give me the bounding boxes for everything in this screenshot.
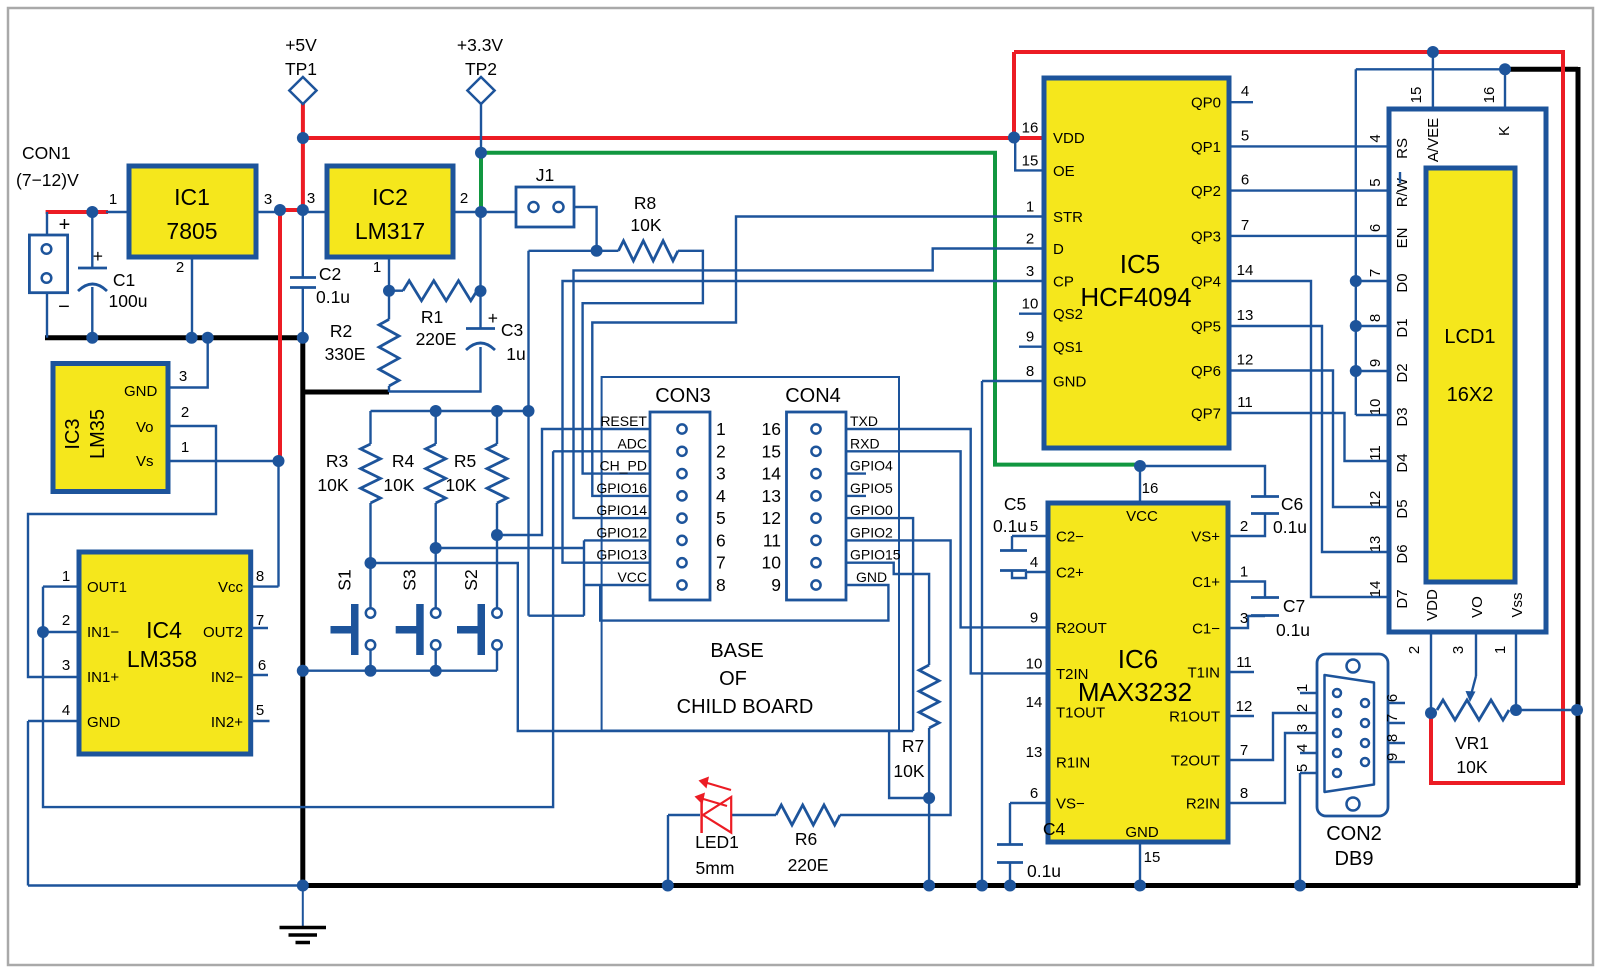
wire IC4 OUT1 stub xyxy=(43,585,79,587)
wire IC2 output to J1 xyxy=(453,211,516,213)
svg-text:1: 1 xyxy=(1294,684,1311,692)
svg-text:C2−: C2− xyxy=(1056,529,1084,546)
wire C6 bottom to VS+ xyxy=(1228,514,1265,536)
svg-text:7: 7 xyxy=(1384,714,1401,722)
label C6 xyxy=(1273,494,1307,537)
svg-text:220E: 220E xyxy=(416,329,457,349)
svg-text:LM35: LM35 xyxy=(87,409,109,459)
svg-text:2: 2 xyxy=(460,190,468,207)
wire CON1 plus xyxy=(46,212,48,235)
svg-text:QP4: QP4 xyxy=(1191,274,1221,291)
svg-text:13: 13 xyxy=(1367,536,1384,553)
IC2 LM317 xyxy=(307,166,468,276)
svg-text:3: 3 xyxy=(307,190,315,207)
svg-text:1: 1 xyxy=(1492,646,1509,654)
svg-text:S3: S3 xyxy=(400,569,420,590)
capacitor C1 (electrolytic) xyxy=(78,246,107,291)
label C2 xyxy=(316,264,350,307)
wire C2 top xyxy=(302,210,304,277)
svg-text:VS−: VS− xyxy=(1056,796,1085,813)
wire IC1 input stub xyxy=(106,211,129,213)
wire GPIO0 down xyxy=(846,518,913,731)
svg-text:R2: R2 xyxy=(330,321,352,341)
wire IC3 Vs to IC4 Vcc xyxy=(168,461,279,587)
wire R2 bottom xyxy=(388,386,390,392)
IC3 LM35 xyxy=(53,364,189,492)
svg-text:9: 9 xyxy=(1384,753,1401,761)
svg-text:GPIO2: GPIO2 xyxy=(850,524,893,540)
svg-text:5: 5 xyxy=(1367,178,1384,186)
LCD1 16X2 module xyxy=(1367,87,1546,655)
svg-text:TXD: TXD xyxy=(850,413,878,429)
svg-text:3: 3 xyxy=(716,464,726,484)
svg-text:0.1u: 0.1u xyxy=(316,287,350,307)
svg-text:R2OUT: R2OUT xyxy=(1056,620,1107,637)
wire +5V link between node dots xyxy=(280,208,303,212)
svg-text:15: 15 xyxy=(1144,849,1161,866)
wire IC2 pin1 to R2 top xyxy=(388,257,390,319)
svg-text:CON4: CON4 xyxy=(785,385,841,407)
wire IC4 IN2+ stub xyxy=(251,720,270,722)
wire C5 to C2+ pin xyxy=(1012,571,1048,578)
label R4 xyxy=(383,451,414,495)
label C5 xyxy=(993,494,1027,536)
svg-text:T1OUT: T1OUT xyxy=(1056,705,1105,722)
svg-text:LM317: LM317 xyxy=(355,218,425,244)
svg-text:R1OUT: R1OUT xyxy=(1169,709,1220,726)
wire IC5 QS2 stub xyxy=(1019,313,1043,315)
wire C7 top to C1+ xyxy=(1228,582,1265,598)
svg-text:10K: 10K xyxy=(317,475,348,495)
wire C2 bottom xyxy=(302,287,304,338)
svg-text:QP7: QP7 xyxy=(1191,406,1221,423)
svg-text:D0: D0 xyxy=(1394,273,1411,292)
svg-text:10K: 10K xyxy=(383,475,414,495)
ground bus top-left xyxy=(45,335,303,340)
resistor R2 xyxy=(379,319,399,386)
svg-text:IC1: IC1 xyxy=(174,184,210,210)
svg-text:IC5: IC5 xyxy=(1120,249,1160,279)
svg-text:IN2−: IN2− xyxy=(211,669,243,686)
svg-text:VS+: VS+ xyxy=(1191,529,1220,546)
svg-text:16: 16 xyxy=(762,419,781,439)
svg-text:ADC: ADC xyxy=(617,435,647,451)
potentiometer VR1 xyxy=(1437,676,1509,720)
wire IC6 R1OUT stub xyxy=(1228,715,1254,717)
resistor R6 xyxy=(776,805,840,825)
svg-text:C2+: C2+ xyxy=(1056,565,1084,582)
svg-text:GPIO14: GPIO14 xyxy=(596,502,647,518)
wire CON2 pin5 to ground xyxy=(1300,773,1317,886)
wire QP7 to LCD D4 xyxy=(1229,413,1389,461)
ground branch to R2/C3 xyxy=(303,390,389,395)
svg-text:IN1−: IN1− xyxy=(87,624,119,641)
label R6 xyxy=(788,829,829,875)
svg-text:14: 14 xyxy=(1367,581,1384,598)
wire IC4 IN1- stub xyxy=(43,631,79,633)
label VR1 xyxy=(1455,733,1489,777)
wire J1 pin2 down to R8 xyxy=(574,207,597,251)
svg-text:13: 13 xyxy=(1237,307,1254,324)
wire IC3 Vo to IC4 IN1+ xyxy=(28,426,216,677)
svg-text:VCC: VCC xyxy=(1126,508,1158,525)
svg-text:8: 8 xyxy=(1367,314,1384,322)
svg-text:S2: S2 xyxy=(461,569,481,590)
svg-text:7: 7 xyxy=(256,612,264,629)
svg-text:C3: C3 xyxy=(501,320,523,340)
svg-text:R/W: R/W xyxy=(1394,177,1411,207)
svg-text:5: 5 xyxy=(1030,518,1038,535)
svg-text:8: 8 xyxy=(716,575,726,595)
wire LCD VDD down xyxy=(1430,632,1432,713)
svg-text:D2: D2 xyxy=(1394,363,1411,382)
wire T2OUT to CON2 pin2 xyxy=(1228,713,1317,760)
svg-text:6: 6 xyxy=(1367,224,1384,232)
svg-text:10K: 10K xyxy=(893,761,924,781)
wire RESET to S2/R5 xyxy=(497,429,650,535)
label LED1 xyxy=(695,832,739,878)
svg-text:8: 8 xyxy=(1026,363,1034,380)
svg-text:R5: R5 xyxy=(454,451,476,471)
wire QP4 to LCD D7 xyxy=(1229,281,1389,597)
wire GPIO5 stub xyxy=(846,495,866,497)
svg-text:CH_PD: CH_PD xyxy=(600,458,647,474)
svg-text:GND: GND xyxy=(124,383,158,400)
svg-text:14: 14 xyxy=(762,464,782,484)
svg-text:15: 15 xyxy=(1022,152,1039,169)
wire R8 to CH_PD xyxy=(583,251,703,474)
svg-text:BASE: BASE xyxy=(710,640,763,662)
wire IC1 out to IC2 in xyxy=(255,211,280,213)
wire LCD D0-D3 common xyxy=(1356,69,1389,415)
svg-text:220E: 220E xyxy=(788,855,829,875)
svg-text:16X2: 16X2 xyxy=(1447,384,1494,406)
svg-text:Vcc: Vcc xyxy=(218,579,244,596)
svg-text:+: + xyxy=(488,308,498,328)
wire IC5 QP0 stub xyxy=(1229,101,1253,103)
svg-text:1: 1 xyxy=(716,419,726,439)
wire QP2 to LCD RW xyxy=(1229,189,1389,191)
wire CON3 VCC row xyxy=(584,584,650,586)
wire CON2 pin6 stub xyxy=(1388,702,1405,704)
svg-text:GPIO12: GPIO12 xyxy=(596,524,647,540)
IC1 7805 xyxy=(109,166,272,276)
svg-text:1: 1 xyxy=(1240,564,1248,581)
svg-text:11: 11 xyxy=(1236,654,1252,671)
svg-text:2: 2 xyxy=(1026,231,1034,248)
svg-text:13: 13 xyxy=(1026,744,1043,761)
svg-text:D5: D5 xyxy=(1394,499,1411,518)
svg-text:10: 10 xyxy=(762,553,782,573)
svg-text:GPIO5: GPIO5 xyxy=(850,480,893,496)
svg-text:0.1u: 0.1u xyxy=(1273,517,1307,537)
ground vertical trunk xyxy=(300,335,305,885)
wire CON2 pin4 stub xyxy=(1300,752,1317,754)
svg-text:CP: CP xyxy=(1053,274,1074,291)
wire +5V top rail to right edge xyxy=(1014,50,1563,54)
svg-text:C1−: C1− xyxy=(1192,621,1220,638)
wire RXD to IC6 R2OUT xyxy=(846,451,1048,627)
svg-text:9: 9 xyxy=(1026,329,1034,346)
svg-text:CHILD BOARD: CHILD BOARD xyxy=(677,696,814,718)
capacitor C6 xyxy=(1251,497,1279,514)
switch S1 xyxy=(331,569,376,655)
wire GPIO14 to IC5 D xyxy=(574,249,1044,519)
wire IC5 GND to ground bus xyxy=(982,381,1043,886)
svg-text:330E: 330E xyxy=(325,344,366,364)
wire IC4 GND to ground xyxy=(28,721,303,886)
svg-text:CON2: CON2 xyxy=(1326,823,1382,845)
svg-text:QS1: QS1 xyxy=(1053,339,1083,356)
svg-text:GND: GND xyxy=(856,569,887,585)
svg-text:GND: GND xyxy=(87,714,121,731)
svg-text:IC2: IC2 xyxy=(372,184,408,210)
svg-text:R6: R6 xyxy=(795,829,817,849)
svg-text:4: 4 xyxy=(1241,83,1249,100)
label C4 xyxy=(1027,819,1065,881)
svg-text:GND: GND xyxy=(1053,374,1087,391)
wire +5V right side down to VR1/VDD xyxy=(1431,50,1563,783)
wire C4 bottom xyxy=(1009,863,1011,886)
svg-text:VDD: VDD xyxy=(1053,130,1085,147)
svg-text:K: K xyxy=(1496,126,1513,136)
base board outline xyxy=(602,377,899,731)
wire C5 to C2- pin xyxy=(1012,536,1048,550)
resistor R8 xyxy=(619,241,679,261)
svg-text:A/VEE: A/VEE xyxy=(1425,118,1442,162)
svg-text:+: + xyxy=(59,214,71,236)
svg-text:16: 16 xyxy=(1142,480,1159,497)
svg-text:+: + xyxy=(93,246,103,266)
svg-text:5: 5 xyxy=(1294,764,1311,772)
label R2 xyxy=(325,321,366,364)
wire CON1 to IC1 pin1 xyxy=(46,210,108,214)
wire IC6 GND to bus xyxy=(1139,842,1141,886)
svg-text:MAX3232: MAX3232 xyxy=(1078,677,1192,707)
svg-text:14: 14 xyxy=(1237,262,1254,279)
wire +5V rail horizontal to IC5 VDD xyxy=(303,136,1043,140)
svg-text:GND: GND xyxy=(1125,824,1159,841)
svg-text:9: 9 xyxy=(1367,359,1384,367)
svg-text:D3: D3 xyxy=(1394,407,1411,426)
svg-text:RESET: RESET xyxy=(600,413,647,429)
connector CON3 xyxy=(596,385,726,600)
wire GPIO13 to IC5 CP xyxy=(563,281,1044,563)
wire C6 top xyxy=(1140,466,1265,496)
wire CON1 minus xyxy=(46,293,48,338)
svg-text:3: 3 xyxy=(1026,263,1034,280)
svg-text:Vs: Vs xyxy=(136,453,154,470)
wire +5V drop to IC3/IC4 supply xyxy=(278,210,282,461)
test point TP1 xyxy=(285,35,317,104)
svg-text:12: 12 xyxy=(762,508,781,528)
wire LED anode to R6 xyxy=(732,814,776,816)
svg-text:1: 1 xyxy=(181,439,189,456)
wire LCD VO down xyxy=(1475,632,1477,676)
wire IC2 pin3 stub xyxy=(303,211,327,213)
wire C7 bottom to C1- xyxy=(1228,616,1265,628)
svg-text:R3: R3 xyxy=(326,451,348,471)
wire LCD Vss down xyxy=(1515,632,1517,710)
wire GPIO15 to R7 xyxy=(846,563,929,665)
wire pullup rail xyxy=(371,411,529,444)
svg-text:QP3: QP3 xyxy=(1191,228,1221,245)
switch S2 xyxy=(457,569,502,655)
svg-text:8: 8 xyxy=(256,568,264,585)
wire CON2 pin7 stub xyxy=(1388,722,1405,724)
svg-text:J1: J1 xyxy=(536,165,554,185)
svg-text:10: 10 xyxy=(1367,399,1384,416)
svg-text:GPIO0: GPIO0 xyxy=(850,502,893,518)
svg-text:16: 16 xyxy=(1022,120,1039,137)
LED1 xyxy=(695,777,732,834)
wire C1 top xyxy=(91,212,93,268)
wire R8 left stub xyxy=(597,250,619,252)
svg-text:R2IN: R2IN xyxy=(1186,796,1220,813)
svg-text:6: 6 xyxy=(716,530,726,550)
svg-text:C1: C1 xyxy=(113,270,135,290)
svg-text:Vss: Vss xyxy=(1509,592,1526,617)
svg-text:7: 7 xyxy=(1241,217,1249,234)
label R5 xyxy=(445,451,476,495)
wire IC1 pin2 to ground bus xyxy=(191,257,193,338)
svg-text:D4: D4 xyxy=(1394,453,1411,472)
wire GPIO4 stub xyxy=(846,472,866,474)
svg-text:C7: C7 xyxy=(1283,596,1305,616)
svg-text:7805: 7805 xyxy=(166,218,217,244)
svg-text:C1+: C1+ xyxy=(1192,574,1220,591)
capacitor C4 xyxy=(997,845,1023,863)
svg-text:1: 1 xyxy=(373,259,381,276)
svg-text:2: 2 xyxy=(181,404,189,421)
svg-text:IC4: IC4 xyxy=(146,617,182,643)
wire GPIO2 to R6 xyxy=(840,540,951,815)
svg-text:R1: R1 xyxy=(421,307,443,327)
label R7 xyxy=(893,736,924,781)
label C1 xyxy=(109,270,148,311)
svg-text:5: 5 xyxy=(1241,127,1249,144)
svg-text:LCD1: LCD1 xyxy=(1444,326,1495,348)
svg-text:TP2: TP2 xyxy=(465,59,497,79)
wire IC3 GND to bus xyxy=(168,338,208,388)
connector J1 xyxy=(516,165,574,227)
wire R2IN to CON2 pin3 xyxy=(1228,733,1317,803)
svg-text:0.1u: 0.1u xyxy=(1276,620,1310,640)
resistor R5 xyxy=(487,444,507,503)
svg-text:4: 4 xyxy=(1294,744,1311,752)
wire QP5 to LCD D6 xyxy=(1229,326,1389,552)
svg-text:C4: C4 xyxy=(1043,819,1066,839)
wire GPIO12 row xyxy=(584,539,650,541)
wire LCD K top link xyxy=(1356,68,1505,70)
svg-text:12: 12 xyxy=(1237,352,1254,369)
svg-text:7: 7 xyxy=(1367,269,1384,277)
wire R1 left join xyxy=(389,290,403,292)
svg-text:2: 2 xyxy=(1240,518,1248,535)
svg-text:C5: C5 xyxy=(1004,494,1026,514)
wire CON2 pin9 stub xyxy=(1388,761,1405,763)
svg-text:10K: 10K xyxy=(445,475,476,495)
ground bus bottom xyxy=(300,883,1578,888)
capacitor C3 (electrolytic) xyxy=(466,308,498,350)
svg-text:15: 15 xyxy=(762,441,781,461)
svg-text:3: 3 xyxy=(1294,724,1311,732)
wire GPIO16 to IC5 STR xyxy=(592,217,1043,496)
svg-text:IC3: IC3 xyxy=(62,418,84,449)
wire R3 to S1 xyxy=(369,503,371,608)
svg-text:QS2: QS2 xyxy=(1053,306,1083,323)
svg-text:14: 14 xyxy=(1026,694,1043,711)
svg-text:1: 1 xyxy=(109,191,117,208)
svg-text:QP5: QP5 xyxy=(1191,319,1221,336)
svg-text:QP1: QP1 xyxy=(1191,139,1221,156)
svg-text:6: 6 xyxy=(1030,785,1038,802)
svg-text:2: 2 xyxy=(716,441,726,461)
IC5 HCF4094 xyxy=(1022,78,1254,448)
wire +5V TP1 stem and drop to IC1/IC2 node xyxy=(301,103,305,210)
svg-text:R4: R4 xyxy=(392,451,415,471)
svg-text:2: 2 xyxy=(1406,646,1423,654)
svg-text:1: 1 xyxy=(1026,199,1034,216)
svg-text:10K: 10K xyxy=(1456,757,1487,777)
wire IC4 IN2- stub xyxy=(251,674,268,676)
svg-text:8: 8 xyxy=(1240,785,1248,802)
svg-text:1: 1 xyxy=(62,568,70,585)
svg-text:16: 16 xyxy=(1481,87,1498,104)
svg-text:3: 3 xyxy=(1450,646,1467,654)
svg-text:3: 3 xyxy=(179,368,187,385)
connector CON1 xyxy=(16,143,79,318)
svg-text:9: 9 xyxy=(1030,609,1038,626)
wire S1 long link xyxy=(371,563,914,731)
wire QP6 to LCD D5 xyxy=(1229,371,1389,508)
svg-text:VR1: VR1 xyxy=(1455,733,1489,753)
svg-text:HCF4094: HCF4094 xyxy=(1080,282,1191,312)
wire LCD K stub xyxy=(1504,69,1506,109)
svg-text:OF: OF xyxy=(719,668,747,690)
wire R4 to S3 xyxy=(435,503,437,608)
svg-text:CON3: CON3 xyxy=(655,385,711,407)
ground symbol xyxy=(280,886,327,943)
svg-text:GPIO15: GPIO15 xyxy=(850,547,901,563)
label R3 xyxy=(317,451,348,495)
svg-text:7: 7 xyxy=(1240,742,1248,759)
wire IC6 VCC xyxy=(1139,466,1141,503)
connector CON4 xyxy=(762,385,901,600)
wire LED cathode to ground xyxy=(668,815,700,886)
svg-text:GPIO16: GPIO16 xyxy=(596,480,647,496)
svg-text:10: 10 xyxy=(1022,296,1039,313)
wire ADC from IC4 OUT1 xyxy=(43,451,650,807)
svg-text:S1: S1 xyxy=(335,569,355,590)
svg-text:QP2: QP2 xyxy=(1191,183,1221,200)
wire +3.3V from IC2 output to IC6 VCC xyxy=(481,153,1140,465)
svg-text:2: 2 xyxy=(176,259,184,276)
svg-text:T2IN: T2IN xyxy=(1056,666,1089,683)
svg-text:GPIO13: GPIO13 xyxy=(596,547,647,563)
test point TP2 xyxy=(457,35,504,104)
resistor R3 xyxy=(361,444,381,503)
wire C4 to VS- xyxy=(1010,803,1048,844)
svg-text:6: 6 xyxy=(258,657,266,674)
svg-text:10: 10 xyxy=(1026,655,1043,672)
svg-text:1u: 1u xyxy=(506,344,525,364)
wire R7 bottom to ground xyxy=(928,728,930,886)
svg-text:0.1u: 0.1u xyxy=(1027,861,1061,881)
wire QP3 to LCD EN xyxy=(1229,235,1389,237)
ground wire top-right xyxy=(1505,67,1578,886)
svg-text:15: 15 xyxy=(1408,87,1425,104)
